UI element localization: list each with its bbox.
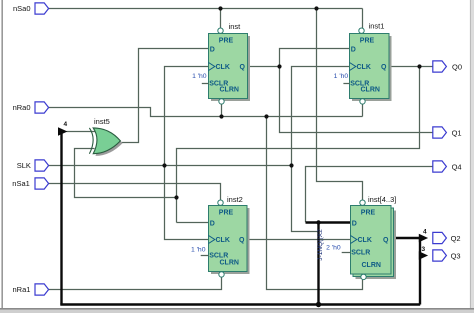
- wire Q0 feedback to D of inst2: [177, 222, 209, 224]
- junction nSa0/PRE-inst: [218, 6, 222, 10]
- svg-text:PRE: PRE: [219, 38, 234, 45]
- svg-text:CLRN: CLRN: [362, 262, 381, 269]
- svg-text:D: D: [210, 220, 215, 227]
- svg-text:CLK: CLK: [216, 237, 230, 244]
- wire net Q0 from Q of inst1: [389, 66, 433, 68]
- svg-text:nSa1: nSa1: [12, 179, 30, 188]
- svg-text:1 'h0: 1 'h0: [334, 73, 349, 80]
- svg-text:Q: Q: [381, 64, 387, 71]
- input pin SLK: [17, 160, 49, 171]
- svg-text:SLK: SLK: [17, 161, 31, 170]
- svg-text:SCLR: SCLR: [351, 249, 370, 256]
- svg-text:CLRN: CLRN: [220, 260, 239, 267]
- wire net nRa0 from pin: [49, 108, 363, 117]
- wire XOR output to D of inst: [117, 49, 209, 143]
- wire nSa0 to PRE of inst: [220, 9, 222, 29]
- frame right border: [470, 0, 474, 308]
- svg-text:CLK: CLK: [216, 64, 230, 71]
- wire nSa0 branch to PRE of inst43: [317, 9, 363, 201]
- input pin nRa1: [13, 284, 49, 295]
- svg-text:PRE: PRE: [360, 38, 375, 45]
- wire XOR input A from bus tap arrow: [67, 131, 96, 133]
- svg-text:nRa0: nRa0: [13, 103, 31, 112]
- wire Q0 feedback vertical: [177, 67, 420, 223]
- junction nSa0/inst43 branch: [314, 6, 318, 10]
- wire net nSa1 to PRE of inst2: [49, 184, 221, 201]
- xor gate U5 inst5: [89, 117, 122, 156]
- output pin Q4: [433, 161, 462, 172]
- bus wire vertical left: [60, 133, 62, 305]
- svg-text:inst2: inst2: [227, 195, 243, 204]
- svg-text:inst5: inst5: [94, 117, 110, 126]
- flip-flop U3 inst2: [191, 195, 250, 277]
- output pin Q0: [433, 61, 462, 72]
- junction bus bottom: [316, 302, 321, 307]
- wire net Q4 branch: [306, 167, 433, 223]
- junction nRa0/inst43 branch: [264, 114, 268, 118]
- flip-flop U2 inst1: [334, 22, 392, 105]
- svg-text:1 'h0: 1 'h0: [192, 73, 207, 80]
- flip-flop U1 inst: [192, 22, 250, 104]
- wire SLK to CLK of inst1 with jog: [292, 67, 350, 240]
- svg-text:inst[4..3]: inst[4..3]: [368, 195, 396, 204]
- output pin Q3: [433, 250, 461, 261]
- svg-text:SCLR: SCLR: [209, 252, 228, 259]
- svg-text:J-1NQ((X2: J-1NQ((X2: [317, 229, 324, 261]
- output pin Q2: [433, 232, 461, 243]
- svg-text:D: D: [352, 220, 357, 227]
- flip-flop U4 inst[4..3]: [326, 195, 396, 280]
- wire net Q of inst2 to CLK of inst43: [247, 239, 350, 241]
- svg-text:Q1: Q1: [452, 129, 462, 138]
- svg-text:CLRN: CLRN: [361, 87, 380, 94]
- wire nRa0 branch to CLRN of inst43: [267, 117, 363, 290]
- wire nSa0 to PRE of inst1: [362, 9, 364, 29]
- svg-text:inst1: inst1: [369, 22, 385, 31]
- junction SLK/vertical-164: [162, 163, 166, 167]
- wire nRa0 stub to CLRN bubble of inst: [221, 104, 223, 116]
- bus tap arrow to Q3, width label 3: [419, 246, 428, 260]
- junction nRa0/CLRN-inst: [219, 114, 223, 118]
- svg-text:nSa0: nSa0: [13, 4, 31, 13]
- svg-text:nRa1: nRa1: [13, 285, 31, 294]
- junction SLK/vertical-292: [289, 163, 293, 167]
- bus tap arrow into XOR, width label 4: [58, 121, 68, 136]
- svg-text:4: 4: [64, 121, 68, 128]
- input pin nSa1: [12, 178, 48, 189]
- svg-text:CLK: CLK: [358, 237, 372, 244]
- bus wire right vertical: [419, 238, 421, 305]
- svg-text:D: D: [210, 46, 215, 53]
- junction Q-inst node: [277, 64, 281, 68]
- frame bottom border: [0, 309, 474, 313]
- svg-text:Q3: Q3: [451, 252, 461, 261]
- svg-text:PRE: PRE: [219, 210, 234, 217]
- wire SLK to CLK of inst and inst2: [165, 67, 209, 240]
- bus wire from Q of inst43: [391, 237, 420, 239]
- svg-text:CLRN: CLRN: [220, 87, 239, 94]
- bus wire riser to D of inst43: [317, 223, 319, 305]
- frame left border: [1, 0, 3, 308]
- junction Q0 feedback node: [417, 64, 421, 68]
- svg-text:D: D: [351, 46, 356, 53]
- net label on bus riser (rotated): [317, 229, 324, 261]
- svg-text:1 'h0: 1 'h0: [191, 246, 206, 253]
- svg-text:CLK: CLK: [357, 64, 371, 71]
- input pin nSa0: [13, 3, 49, 14]
- svg-text:4: 4: [423, 229, 427, 236]
- bus tap arrow to Q2, width label 4: [419, 229, 428, 243]
- svg-text:Q2: Q2: [451, 234, 461, 243]
- svg-text:Q: Q: [239, 237, 245, 244]
- svg-text:inst: inst: [229, 22, 242, 31]
- svg-text:PRE: PRE: [361, 210, 376, 217]
- wire net Q of inst: [248, 66, 280, 68]
- output pin Q1: [433, 127, 462, 138]
- wire nRa0 stub to CLRN bubble of inst1: [362, 104, 364, 116]
- bus wire D input of inst43: [306, 221, 351, 223]
- junction bus D-line: [316, 220, 320, 224]
- input pin nRa0: [13, 102, 49, 113]
- svg-text:Q4: Q4: [452, 163, 462, 172]
- svg-text:Q0: Q0: [452, 63, 462, 72]
- svg-text:Q: Q: [240, 64, 246, 71]
- wire net SLK from pin: [49, 165, 292, 167]
- wire net nSa0 top rail: [49, 8, 363, 10]
- bus wire bottom run: [60, 303, 420, 305]
- wire Q-inst up to D of inst1: [280, 49, 350, 67]
- wire Q0 feedback branch to XOR input B: [75, 149, 177, 198]
- svg-text:Q: Q: [383, 237, 389, 244]
- wire net nRa1 to CLRN of inst2: [49, 277, 222, 289]
- wire Q-inst down to pin Q1: [280, 67, 433, 133]
- svg-text:2 'h0: 2 'h0: [326, 244, 341, 251]
- junction Q0-feedback/D-inst2 node: [174, 195, 178, 199]
- svg-text:3: 3: [422, 246, 426, 253]
